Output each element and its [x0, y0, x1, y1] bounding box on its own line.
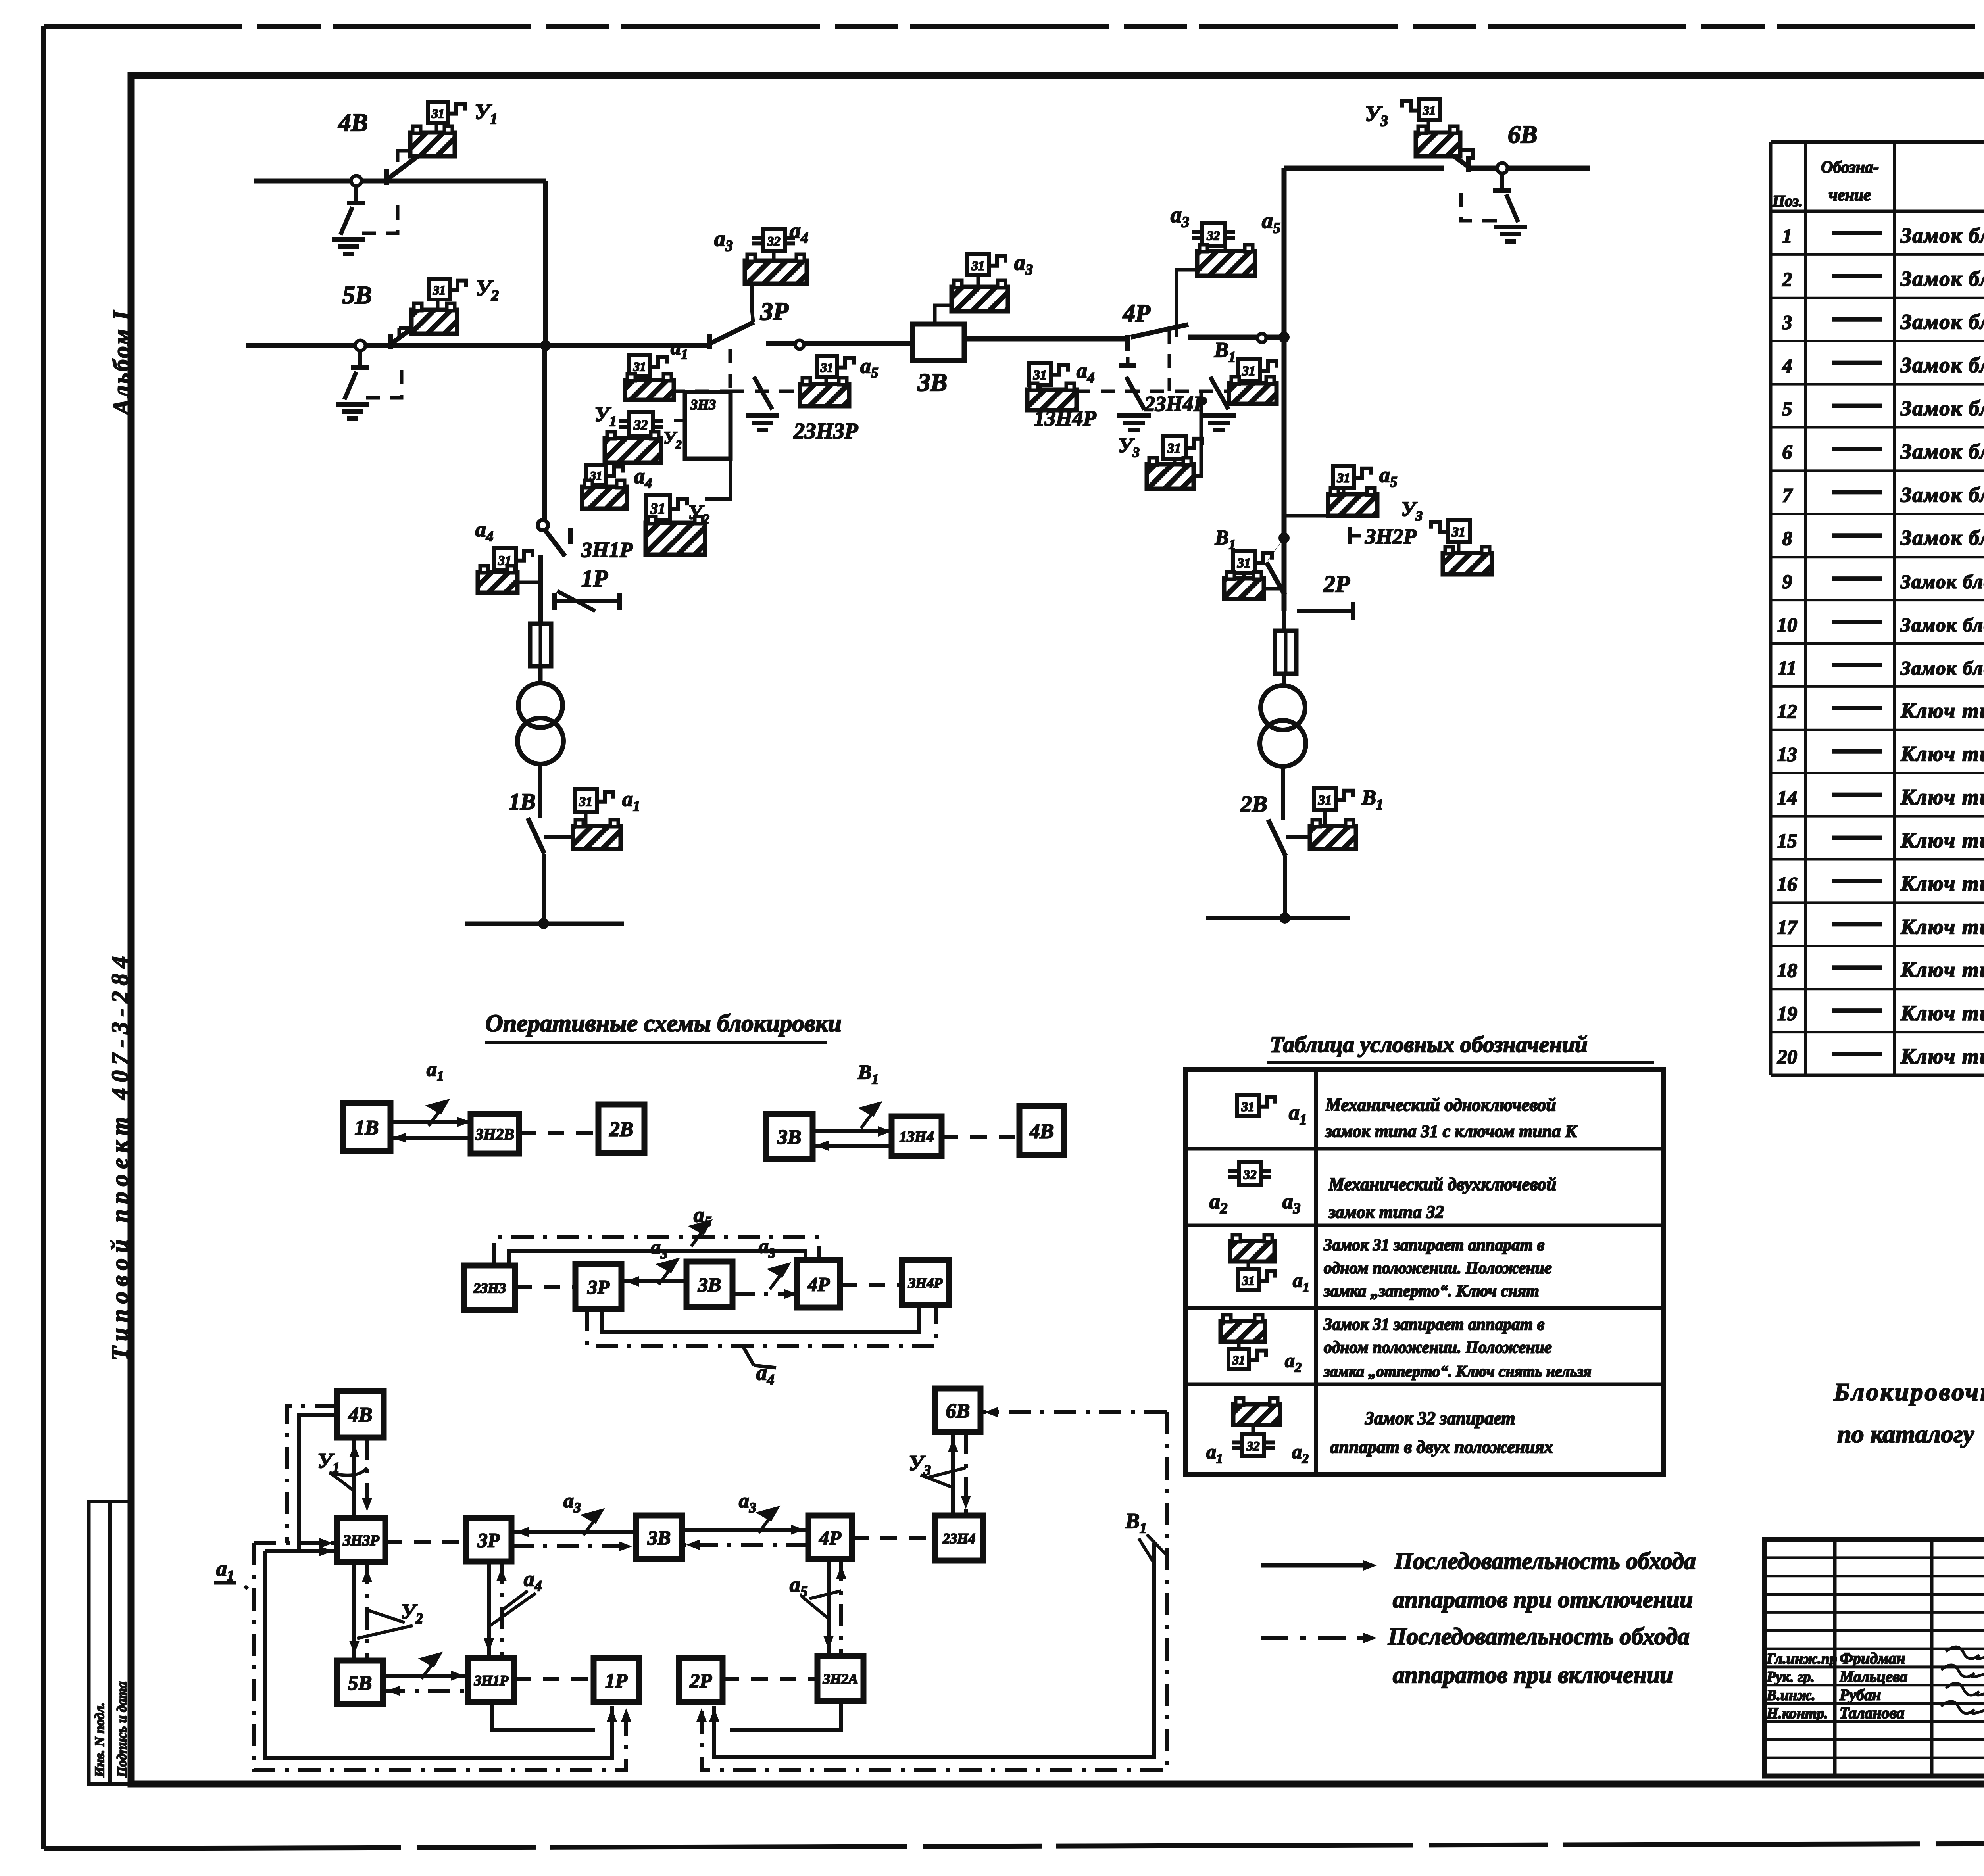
wire — [538, 666, 543, 684]
svg-text:Замок блокировочный типа 32, с: Замок блокировочный типа 32, секрет У1​-… — [1900, 571, 1984, 596]
fuse 2Т — [1275, 631, 1296, 674]
lock31 В1 (2В) — [1314, 788, 1336, 810]
svg-text:Типовой проект 407-3-284: Типовой проект 407-3-284 — [107, 950, 133, 1361]
lock-box а4 — [478, 572, 517, 593]
interlock dashes below 4Р — [1168, 329, 1171, 391]
wire bus2 junction down to 1Р — [542, 346, 547, 522]
lock а5 (ЗН2Р) — [1333, 466, 1354, 488]
diagram D: box 2Р — [679, 1658, 723, 1702]
diagram B: box 4В — [1019, 1106, 1064, 1155]
svg-text:ЗН3Р: ЗН3Р — [342, 1532, 379, 1549]
lock32 а3-а5 — [1202, 223, 1225, 246]
svg-text:18: 18 — [1777, 959, 1797, 981]
switch 1В — [528, 818, 544, 854]
svg-text:10: 10 — [1777, 614, 1797, 636]
diagram D: box 1Р — [594, 1658, 639, 1702]
svg-text:Мальцева: Мальцева — [1839, 1668, 1907, 1686]
diagram D: 3В-4Р arrow — [682, 1528, 808, 1532]
outer sheet border — [44, 24, 1984, 29]
svg-text:31: 31 — [1167, 441, 1181, 456]
lock31 а3 (3В) — [967, 254, 989, 275]
svg-text:32: 32 — [767, 234, 781, 249]
svg-text:Инв. N подл.: Инв. N подл. — [92, 1702, 107, 1778]
lock-box 4В — [435, 123, 438, 132]
aux blade left + ground — [1126, 377, 1144, 409]
svg-text:3В: 3В — [777, 1126, 802, 1149]
svg-text:1: 1 — [1782, 225, 1792, 247]
svg-text:ЗН3: ЗН3 — [690, 397, 716, 413]
svg-text:6В: 6В — [946, 1400, 970, 1423]
diagram B: links — [813, 1129, 892, 1133]
diagram A: box 1В — [343, 1103, 390, 1151]
diagram D: box ЗН2А — [817, 1656, 863, 1701]
diagram D: box ЗН1Р — [468, 1658, 514, 1702]
title block frame — [1765, 1540, 1984, 1776]
lock-box У1-У2 — [639, 436, 643, 438]
svg-text:17: 17 — [1777, 916, 1798, 938]
circuit breaker 3В — [913, 324, 964, 361]
svg-text:2ЗН3: 2ЗН3 — [473, 1280, 506, 1296]
svg-text:31: 31 — [433, 283, 446, 297]
svg-text:Замок блокировочный типа 32,: Замок блокировочный типа 32, секрет а3​-… — [1900, 614, 1984, 639]
svg-text:2ЗН4Р: 2ЗН4Р — [1144, 392, 1207, 416]
svg-text:Замок блокировочный типа 31,: Замок блокировочный типа 31, секрет У3​ — [1900, 526, 1984, 553]
diagram D: У2 flag — [421, 1654, 440, 1679]
diagram C: box 3В — [686, 1262, 732, 1307]
svg-text:7: 7 — [1782, 484, 1793, 506]
svg-text:4: 4 — [1782, 354, 1792, 376]
diagram C: box 2ЗН3Р — [464, 1265, 515, 1310]
svg-text:31: 31 — [1033, 368, 1047, 382]
diagram D: box 2ЗН4 — [935, 1515, 983, 1561]
lock а4 (1ЗН4Р) — [1029, 363, 1051, 385]
svg-text:Замок 32 запирает: Замок 32 запирает — [1365, 1408, 1515, 1428]
earthing switch 5В — [358, 351, 362, 367]
svg-text:31: 31 — [1237, 556, 1251, 570]
svg-text:11: 11 — [1778, 657, 1796, 679]
svg-text:Блокировочная аппаратура выб: Блокировочная аппаратура выбрана — [1833, 1378, 1984, 1406]
earthing switch 6В — [1500, 173, 1504, 190]
wire to fuse 2 — [1282, 595, 1286, 631]
diagram A: box 2В — [598, 1104, 644, 1153]
svg-text:4В: 4В — [1029, 1120, 1054, 1143]
lock31 У2 — [646, 495, 670, 520]
lock-box а5 — [1328, 494, 1377, 516]
legend solid line — [1261, 1563, 1371, 1568]
aux contact row 1Р — [552, 593, 557, 610]
svg-text:1В: 1В — [509, 789, 536, 814]
svg-text:замок типа 31 с ключом типа К: замок типа 31 с ключом типа К — [1325, 1121, 1578, 1141]
diagram D: box 6В — [935, 1388, 980, 1432]
svg-text:замка „заперто“. Ключ снят: замка „заперто“. Ключ снят — [1323, 1282, 1539, 1300]
svg-text:2В: 2В — [609, 1118, 634, 1141]
lock-box 6В — [1427, 120, 1430, 132]
wire 4Р to right riser — [1188, 335, 1284, 340]
wire to LV bus — [542, 854, 546, 924]
svg-text:ЗН4Р: ЗН4Р — [908, 1275, 943, 1291]
diagram D: ЗН2А bottom link — [730, 1702, 841, 1730]
svg-text:6В: 6В — [1508, 120, 1538, 148]
svg-text:2В: 2В — [1240, 791, 1267, 817]
wire — [1281, 766, 1285, 820]
svg-text:Ключ типа К1​ , секрет а3​: Ключ типа К1​ , секрет а3​ — [1900, 785, 1984, 812]
svg-text:32: 32 — [1207, 229, 1220, 243]
lock-box 3Р — [745, 261, 807, 284]
lock-box 2В — [1323, 810, 1327, 826]
svg-text:31: 31 — [1242, 364, 1255, 378]
svg-text:14: 14 — [1777, 786, 1797, 808]
lock31 У3 (6В) — [1419, 99, 1440, 120]
svg-text:ЗН2В: ЗН2В — [475, 1125, 514, 1143]
lock-box В1 — [1229, 383, 1277, 404]
diagram C: box 3Р — [575, 1264, 621, 1309]
svg-text:2Р: 2Р — [689, 1669, 712, 1692]
aux blade + ground (2ЗН3Р) — [754, 377, 772, 409]
diagram D: 2Р-ЗН2А dash — [723, 1677, 817, 1681]
svg-text:Ключ типа К , секрет У3​: Ключ типа К , секрет У3​ — [1900, 1001, 1984, 1028]
wire — [1282, 674, 1286, 686]
svg-text:31: 31 — [971, 259, 985, 273]
svg-text:20: 20 — [1777, 1046, 1797, 1068]
disconnector 1Р — [538, 520, 548, 530]
diagram D: box ЗН3Р — [337, 1518, 385, 1562]
wire to fuse — [538, 555, 543, 624]
svg-text:Ключ типа К1​ , секрет У1​: Ключ типа К1​ , секрет У1​ — [1900, 915, 1984, 942]
svg-text:2ЗН3Р: 2ЗН3Р — [793, 419, 858, 444]
diagram A: box ЗН2В — [471, 1114, 519, 1154]
svg-text:9: 9 — [1782, 570, 1792, 593]
svg-text:32: 32 — [633, 417, 648, 433]
svg-text:Замок блокировочный типа 31,: Замок блокировочный типа 31, секрет а5​ — [1900, 483, 1984, 510]
diagram D: 4В-ЗН3Р verticals — [352, 1438, 356, 1518]
wire bus line 1 (4В feeder) — [254, 179, 546, 184]
svg-text:32: 32 — [1246, 1439, 1260, 1454]
svg-text:ЗН2А: ЗН2А — [823, 1671, 858, 1687]
svg-text:Рубан: Рубан — [1839, 1686, 1881, 1703]
diagram D: box 4В — [337, 1391, 384, 1438]
svg-text:Таблица условных обозначений: Таблица условных обозначений — [1270, 1031, 1588, 1057]
lock31 а4 (У cluster) — [586, 465, 606, 485]
diagram C: box 4Р — [797, 1260, 840, 1308]
svg-text:4Р: 4Р — [819, 1527, 841, 1549]
svg-text:4В: 4В — [348, 1404, 373, 1427]
svg-text:3Р: 3Р — [587, 1276, 609, 1298]
svg-text:одном положении. Положение: одном положении. Положение — [1324, 1338, 1552, 1357]
ground — [1508, 225, 1512, 226]
diagram C: lower loop — [602, 1307, 919, 1332]
designation box ЗН3Р — [685, 392, 731, 459]
diagram C: а5 loop — [494, 1237, 819, 1265]
diagram D: ЗН3Р-3Р dash — [385, 1540, 466, 1544]
svg-text:Ключ типа К1, секрет а1: Ключ типа К1, секрет а1 — [1900, 699, 1984, 722]
lock31 У2 — [429, 279, 450, 300]
svg-text:4Р: 4Р — [807, 1273, 830, 1295]
svg-text:ЗН1Р: ЗН1Р — [474, 1672, 509, 1688]
svg-text:аппарат в двух положениях: аппарат в двух положениях — [1330, 1437, 1553, 1457]
svg-text:аппаратов при включении: аппаратов при включении — [1393, 1662, 1673, 1688]
svg-text:одном положении. Положение: одном положении. Положение — [1324, 1259, 1552, 1277]
svg-text:Фридман: Фридман — [1840, 1649, 1905, 1667]
wire to LV bus — [1283, 856, 1287, 918]
svg-text:5В: 5В — [342, 281, 372, 309]
legend row4 symbol — [1221, 1321, 1265, 1342]
svg-text:Замок блокировочный типа 31,: Замок блокировочный типа 31, секрет В1​ — [1900, 267, 1984, 294]
lock-box а3-а5 — [1224, 246, 1227, 251]
legend row3 symbol — [1230, 1241, 1275, 1262]
diagram D: box 5В — [337, 1661, 383, 1704]
svg-text:3Р: 3Р — [477, 1529, 500, 1551]
svg-text:Альбом I: Альбом I — [108, 309, 135, 417]
lock31 У1 — [428, 102, 448, 123]
svg-text:Замок блокировочный типа 31,: Замок блокировочный типа 31, секрет а3​ — [1900, 396, 1984, 423]
svg-text:3В: 3В — [698, 1273, 721, 1296]
svg-text:31: 31 — [1232, 1353, 1245, 1367]
wire — [538, 763, 542, 818]
diagram D: box 3В — [636, 1515, 682, 1559]
svg-text:Замок блокировочный типа 31,: Замок блокировочный типа 31, секрет У1​ — [1900, 310, 1984, 337]
title block signature rows — [1766, 1647, 1984, 1722]
svg-text:Рук. гр.: Рук. гр. — [1766, 1669, 1815, 1686]
svg-text:3Р: 3Р — [760, 297, 789, 325]
svg-text:31: 31 — [579, 795, 592, 809]
svg-text:Ключ типа К1​ , секрет а5​: Ключ типа К1​ , секрет а5​ — [1900, 872, 1984, 899]
svg-text:Ключ типа К1​ , секрет а4​: Ключ типа К1​ , секрет а4​ — [1900, 828, 1984, 855]
switch 5В — [355, 340, 365, 351]
svg-text:3: 3 — [1782, 311, 1792, 333]
svg-text:Оперативные схемы блокировки: Оперативные схемы блокировки — [485, 1010, 842, 1037]
wire 3Р to 3В — [766, 341, 913, 346]
svg-text:Замок 31 запирает аппарат в: Замок 31 запирает аппарат в — [1323, 1236, 1545, 1254]
margin stamp box Инв/Подпись — [89, 1502, 131, 1784]
svg-text:12: 12 — [1777, 700, 1797, 722]
diagram B: box 3В — [766, 1114, 813, 1159]
svg-text:Таланова: Таланова — [1840, 1704, 1904, 1722]
svg-text:5: 5 — [1782, 397, 1792, 420]
transformer T2 — [1261, 685, 1305, 730]
svg-text:по каталогу: по каталогу — [1837, 1420, 1974, 1448]
diagram D: 4В stubs — [287, 1406, 337, 1543]
svg-text:Последовательность обхода: Последовательность обхода — [1394, 1548, 1696, 1574]
svg-text:Замок блокировочный типа 31, с: Замок блокировочный типа 31, секрет а1​ — [1900, 223, 1984, 250]
svg-text:4В: 4В — [338, 108, 368, 136]
diagram D: 3В-3Р arrow — [511, 1530, 636, 1534]
svg-text:31: 31 — [650, 501, 665, 517]
svg-text:1В: 1В — [355, 1117, 379, 1139]
lock-box В1 2Р — [1224, 578, 1264, 599]
diagram C: links — [515, 1285, 575, 1289]
diagram D: box 4Р — [808, 1515, 852, 1559]
diagram D: ЗН1Р bottom link — [492, 1703, 595, 1730]
legend row2 symbol lock32 — [1239, 1162, 1261, 1185]
legend row1 symbol lock31 — [1237, 1095, 1259, 1116]
svg-text:замок типа 32: замок типа 32 — [1328, 1202, 1444, 1222]
fuse 1Т — [530, 624, 551, 666]
lock У3 cluster below 4Р — [1163, 436, 1186, 459]
svg-text:Н.контр.: Н.контр. — [1766, 1705, 1828, 1722]
lock31 а1 (1В) — [575, 789, 597, 812]
svg-text:1Р: 1Р — [605, 1669, 627, 1692]
svg-text:1ЗН4Р: 1ЗН4Р — [1034, 406, 1096, 430]
svg-text:Замок блокировочный типа 32,: Замок блокировочный типа 32, секрет а3​-… — [1900, 657, 1984, 682]
svg-text:чение: чение — [1829, 186, 1871, 204]
svg-text:6: 6 — [1782, 441, 1792, 463]
diagram A: links — [390, 1120, 471, 1124]
left У-cluster: lock а1 — [629, 355, 650, 376]
disconnector 2Р — [1297, 609, 1314, 613]
svg-text:Гл.инж.пр: Гл.инж.пр — [1766, 1651, 1837, 1667]
lock-box 2ЗН3Р — [817, 356, 837, 377]
diagram D: box 3Р — [466, 1518, 511, 1561]
lock-box У2 — [656, 520, 660, 523]
svg-text:Ключ типа К1​ ; секрет а2​: Ключ типа К1​ ; секрет а2​ — [1900, 742, 1984, 769]
svg-text:1ЗН4: 1ЗН4 — [900, 1129, 934, 1145]
diagram D: а4 verticals 3Р-ЗН1Р — [487, 1561, 491, 1658]
lock-box 5В — [436, 300, 440, 310]
svg-text:1Р: 1Р — [581, 565, 608, 591]
interlock dashes below 3Р — [729, 349, 732, 391]
legend dash-dot line — [1261, 1636, 1365, 1640]
diagram D: 4Р-ЗН2А verticals — [827, 1559, 831, 1656]
svg-text:3В: 3В — [647, 1527, 671, 1549]
svg-text:Поз.: Поз. — [1772, 192, 1803, 210]
svg-text:аппаратов при отключении: аппаратов при отключении — [1393, 1586, 1693, 1613]
legend table grid — [1186, 1070, 1664, 1474]
svg-text:16: 16 — [1777, 873, 1797, 895]
diagram D: 6В-2ЗН4 verticals — [951, 1432, 955, 1515]
svg-text:3В: 3В — [917, 368, 948, 396]
LV bus left — [465, 922, 624, 926]
svg-text:5В: 5В — [348, 1672, 372, 1695]
aux contact row 2Р — [1351, 602, 1355, 620]
svg-text:8: 8 — [1782, 527, 1792, 549]
svg-text:Замок блокировочный типа 31,: Замок блокировочный типа 31, секрет У2​ — [1900, 353, 1984, 380]
lock-box 3В — [952, 287, 1008, 311]
lock-box 1В — [584, 812, 588, 826]
lock-box 1ЗН4Р — [1027, 390, 1077, 410]
svg-text:31: 31 — [820, 360, 833, 374]
svg-text:Подпись и дата: Подпись и дата — [115, 1681, 129, 1778]
right riser wire — [1282, 168, 1287, 611]
svg-text:31: 31 — [1423, 103, 1436, 117]
svg-text:31: 31 — [1337, 471, 1350, 486]
diagram B: box 1ЗН4 — [892, 1116, 942, 1156]
wire bus line 2 (5В feeder) — [246, 343, 707, 348]
svg-text:ЗН1Р: ЗН1Р — [581, 538, 633, 562]
ground — [346, 237, 350, 239]
lock У3 (ЗН2Р) — [1448, 520, 1470, 542]
aux row ЗН2Р — [1348, 527, 1352, 544]
svg-text:2ЗН4: 2ЗН4 — [942, 1530, 975, 1546]
svg-text:Ключ типа К , секрет а3​: Ключ типа К , секрет а3​ — [1900, 1045, 1984, 1071]
ground — [350, 402, 354, 403]
disconnector 3Р — [707, 334, 712, 349]
switch 6В — [1497, 163, 1507, 173]
svg-text:ЗН2Р: ЗН2Р — [1365, 524, 1417, 548]
wire bus line 3 (6В feeder) — [1284, 166, 1444, 171]
svg-text:Последовательность обхода: Последовательность обхода — [1388, 1623, 1690, 1649]
svg-text:Ключ типа К , секрет У2​: Ключ типа К , секрет У2​ — [1900, 958, 1984, 985]
switch 2В — [1268, 820, 1286, 856]
svg-text:Замок блокировочный типа 31,: Замок блокировочный типа 31, секрет а4​ — [1900, 440, 1984, 467]
svg-text:31: 31 — [1241, 1100, 1255, 1114]
spec table grid — [1771, 142, 1984, 1075]
switch 4В — [351, 176, 361, 186]
wire 3В to 4Р — [964, 336, 1125, 342]
lock-box а4 (У cluster) — [594, 485, 598, 487]
LV bus right — [1206, 916, 1350, 920]
diagram D: 5В-ЗН1Р links — [383, 1674, 468, 1678]
legend row5 symbol — [1233, 1404, 1280, 1425]
diagram C: box ЗН4Р — [902, 1260, 949, 1305]
svg-text:2Р: 2Р — [1323, 571, 1350, 597]
svg-text:31: 31 — [1451, 525, 1465, 540]
svg-text:15: 15 — [1777, 830, 1797, 852]
svg-text:4Р: 4Р — [1123, 300, 1151, 327]
lock32 а3-а4 — [772, 251, 776, 261]
lock-box У3 ЗН2Р — [1443, 553, 1492, 574]
svg-text:19: 19 — [1777, 1002, 1797, 1025]
svg-text:замка „отперто“. Ключ снять не: замка „отперто“. Ключ снять нельзя — [1323, 1362, 1592, 1380]
diagram D: ЗН1Р-1Р dash — [514, 1677, 594, 1681]
svg-text:31: 31 — [1242, 1273, 1255, 1288]
svg-text:Замок 31 запирает аппарат в: Замок 31 запирает аппарат в — [1323, 1315, 1545, 1334]
svg-text:Обозна-: Обозна- — [1821, 158, 1879, 177]
aux blade right + ground — [1210, 377, 1228, 409]
svg-text:31: 31 — [633, 359, 646, 374]
diagram D: ЗН3Р-5В verticals — [352, 1562, 356, 1661]
transformer T1 — [518, 683, 563, 728]
svg-text:32: 32 — [1243, 1168, 1257, 1182]
svg-text:2: 2 — [1782, 268, 1792, 290]
spec table rows — [1777, 223, 1984, 1071]
svg-text:31: 31 — [1318, 793, 1332, 808]
svg-text:Механический двухключевой: Механический двухключевой — [1328, 1174, 1556, 1194]
svg-text:13: 13 — [1777, 743, 1797, 765]
earthing switch 4В — [354, 186, 358, 202]
svg-text:В.инж.: В.инж. — [1766, 1687, 1815, 1703]
svg-text:Механический одноключевой: Механический одноключевой — [1325, 1095, 1556, 1115]
svg-text:31: 31 — [431, 106, 444, 121]
diagram D: 4Р-2ЗН4 dash — [852, 1536, 935, 1540]
